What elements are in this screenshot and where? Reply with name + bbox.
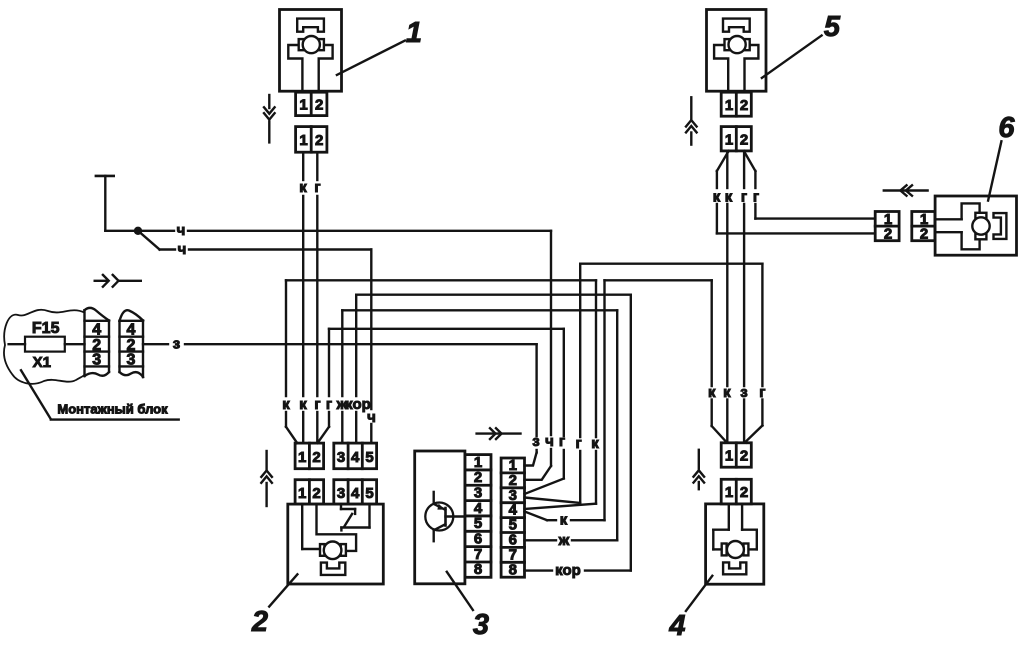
wire г (blue) relay 3 pin 3 to rear lamp 4 pin 2	[525, 264, 763, 503]
relay harness connector cells 1-8	[501, 457, 524, 578]
wire ж (yellow) switch 2 pin 3 to relay 3 pin 6	[342, 310, 617, 540]
svg-text:к: к	[725, 189, 733, 206]
svg-text:1: 1	[725, 97, 733, 114]
wire к inner from lamp 5 pin 1 down to rear lamp 4 pin 1	[726, 151, 728, 443]
svg-text:4: 4	[351, 485, 360, 502]
svg-text:2: 2	[740, 484, 748, 501]
lamp 6 leader line	[988, 141, 1001, 200]
hazard switch 2 internal wiring pin2 to bulb	[317, 504, 357, 551]
ground terminal symbol	[96, 176, 114, 231]
svg-text:2: 2	[315, 132, 323, 149]
wire к outer from lamp 5 pin 1 to side repeater 6 pin 2	[717, 151, 875, 234]
wire label к (at switch 2 outer)	[282, 396, 290, 413]
wire label г (lamp1)	[314, 179, 320, 196]
rear lamp 4 bulb symbol with holder	[713, 504, 757, 558]
wire г inner from lamp 5 pin 2 down to rear lamp 4 pin 2 area	[743, 151, 745, 443]
lamp 5 leader line	[762, 36, 822, 78]
svg-text:5: 5	[824, 11, 841, 43]
svg-text:2: 2	[920, 226, 928, 243]
lamp 5 bulb symbol with holder and contact bracket	[714, 19, 758, 92]
svg-text:ж: ж	[558, 532, 570, 549]
wire label к (at switch 2, same red wire)	[299, 396, 307, 413]
harness junction arrow (right) near mounting block	[95, 275, 141, 287]
wire label ж (at switch 2)	[336, 396, 348, 413]
wire label к (at rear lamp 4 outer)	[708, 384, 716, 401]
svg-text:1: 1	[299, 97, 307, 114]
hazard switch 2 connector row 1 pins 1 2	[295, 443, 324, 469]
svg-text:Монтажный блок: Монтажный блок	[57, 402, 168, 417]
svg-text:кор: кор	[345, 396, 371, 413]
lamp 6 connector block pins 1 2 (left)	[875, 211, 899, 243]
lamp 1 connector block pins 1 2 (lower)	[296, 127, 327, 153]
lamp 5 connector block pins 1 2 (lower)	[721, 127, 751, 151]
wire г from lamp 1 pin 2 down to switch 2 pin 2	[316, 152, 318, 443]
svg-text:г: г	[753, 189, 759, 206]
mounting block caption underline	[51, 418, 179, 420]
svg-text:г: г	[314, 396, 320, 413]
hazard switch 2 connector row 2 pins 3 4 5	[334, 480, 377, 504]
svg-text:2: 2	[740, 447, 748, 464]
svg-text:1: 1	[725, 484, 733, 501]
wire label г (first at relay connector)	[559, 433, 565, 450]
svg-text:к: к	[299, 179, 307, 196]
wire label г (second at relay connector)	[575, 435, 581, 452]
wire з (green) from fuse to relay 3 pin 1	[143, 344, 537, 465]
svg-text:к: к	[560, 512, 568, 529]
wire label ч (near ground, upper)	[177, 222, 186, 239]
svg-text:3: 3	[92, 352, 101, 369]
svg-text:8: 8	[509, 561, 517, 578]
mounting block caption	[57, 402, 168, 417]
mounting block leader line	[21, 370, 51, 419]
svg-text:2: 2	[312, 449, 320, 466]
svg-text:1: 1	[298, 485, 306, 502]
wire label к (lamp5 outer)	[713, 189, 721, 206]
svg-text:8: 8	[474, 561, 482, 578]
label 4 (component number)	[668, 610, 685, 642]
svg-text:1: 1	[298, 449, 306, 466]
svg-text:ч: ч	[545, 433, 554, 450]
svg-text:г: г	[575, 435, 581, 452]
mounting block connector strip cells 4 2 3 (left)	[85, 308, 110, 376]
svg-text:2: 2	[884, 226, 892, 243]
harness junction arrow (up) at lamp 5	[686, 97, 697, 144]
svg-text:2: 2	[315, 97, 323, 114]
svg-text:ж: ж	[336, 396, 348, 413]
svg-text:з: з	[740, 384, 747, 401]
svg-text:4: 4	[351, 449, 360, 466]
svg-text:1: 1	[725, 131, 733, 148]
svg-text:к: к	[713, 189, 721, 206]
wire label г (at rear lamp 4)	[759, 384, 765, 401]
wire кор (brown) switch 2 pin 4 to relay 3 pin 8	[356, 295, 631, 571]
wire label г (at switch 2, same blue wire)	[314, 396, 320, 413]
svg-text:4: 4	[92, 322, 101, 339]
wire к (red) relay 3 pin 4 to rear lamp 4 pin 1	[525, 280, 726, 520]
svg-text:2: 2	[312, 485, 320, 502]
svg-text:1: 1	[299, 132, 307, 149]
svg-text:2: 2	[740, 97, 748, 114]
wire label ч (at relay connector)	[545, 433, 554, 450]
svg-text:3: 3	[337, 449, 345, 466]
lamp 5 (front turn signal right) housing box	[707, 10, 767, 92]
harness junction arrow (right) at relay connector	[477, 428, 521, 439]
lamp 6 bulb symbol with holder and contact bracket (rotated)	[935, 203, 1006, 249]
wire label з (near mounting block)	[173, 336, 180, 353]
hazard switch 2 heater/contact bracket	[321, 563, 345, 575]
wire ч (black) branch from junction to switch 2 pin 5	[138, 231, 371, 443]
wire г (blue) switch 2 pin 2 to relay 3 pin 3	[318, 329, 564, 494]
svg-text:4: 4	[127, 322, 136, 339]
svg-text:4: 4	[668, 610, 685, 641]
label 3 (component number)	[473, 609, 489, 641]
wire label к (same red wire at rear lamp 4)	[723, 384, 731, 401]
svg-text:з: з	[532, 433, 539, 450]
svg-text:к: к	[299, 396, 307, 413]
wire label з (at relay connector)	[532, 433, 539, 450]
mounting block outline (Монтажный блок)	[4, 310, 85, 384]
wire label ч (near ground, lower)	[178, 241, 187, 258]
lamp 1 bulb symbol with holder and contact bracket	[288, 19, 332, 92]
fuse F15 symbol	[9, 337, 65, 352]
wire label г (lamp5 outer)	[753, 189, 759, 206]
wire label к (at relay connector)	[591, 435, 599, 452]
wire к from lamp 1 pin 1 down to switch 2 pin 1	[302, 152, 304, 443]
fuse output line to block connector	[65, 343, 85, 345]
wire label к (on relay pin4 horizontal)	[560, 512, 568, 529]
side repeater lamp 6 housing box	[935, 196, 1016, 255]
label 2 (component number)	[251, 606, 268, 638]
svg-text:2: 2	[740, 131, 748, 148]
svg-text:X1: X1	[33, 354, 51, 371]
hazard switch 2 connector row 2 pins 1 2	[295, 480, 324, 504]
svg-text:з: з	[173, 336, 180, 353]
wire label к (lamp5 inner)	[725, 189, 733, 206]
rear turn signal lamp 4 connector block pins 1 2 (upper)	[721, 443, 751, 467]
svg-text:3: 3	[337, 485, 345, 502]
fuse F15 label	[32, 320, 60, 337]
label 1 (component number)	[406, 17, 422, 49]
svg-text:2: 2	[251, 606, 268, 638]
svg-text:к: к	[723, 384, 731, 401]
rear lamp 4 body box	[706, 504, 764, 584]
svg-text:6: 6	[998, 112, 1015, 144]
svg-text:к: к	[591, 435, 599, 452]
hazard switch 2 internal wiring pin1 to bulb	[302, 504, 320, 549]
wire label к (lamp1)	[299, 179, 307, 196]
wire label ч (at switch 2)	[367, 409, 376, 426]
lamp 5 connector block pins 1 2 (upper)	[721, 92, 751, 116]
wire label ж (at relay connector)	[558, 532, 570, 549]
hazard switch 2 indicator bulb	[320, 542, 346, 560]
lamp 1 connector block pins 1 2 (upper)	[296, 92, 327, 115]
harness connector strip cells 4 2 3 (right)	[120, 310, 144, 377]
hazard switch 2 body box	[288, 504, 384, 584]
wire label кор (at relay connector)	[555, 562, 581, 579]
relay 3 terminal strip cells 1-8	[465, 454, 491, 578]
svg-text:1: 1	[725, 447, 733, 464]
hazard switch 2 switch contact symbol	[341, 504, 370, 530]
svg-text:к: к	[282, 396, 290, 413]
wire label г (lamp5 inner)	[741, 189, 747, 206]
svg-text:1: 1	[406, 17, 422, 49]
wire label кор (at switch 2)	[345, 396, 371, 413]
lamp 1 (front turn signal) housing box	[280, 10, 342, 92]
wire label г (at switch 2 outer)	[326, 396, 332, 413]
svg-text:г: г	[759, 384, 765, 401]
svg-text:5: 5	[365, 449, 373, 466]
svg-text:ч: ч	[178, 241, 187, 258]
wire ч (black) from ground to relay 3 pin 2	[105, 231, 551, 480]
svg-text:кор: кор	[555, 562, 581, 579]
rear lamp 4 contact bracket	[723, 562, 746, 574]
junction dot on ground wire	[134, 227, 142, 235]
lamp 6 connector block pins 1 2 (right)	[912, 211, 935, 243]
svg-text:F15: F15	[32, 320, 60, 337]
relay 3 transistor symbol	[425, 492, 465, 541]
wire к (red) switch 2 pin 1 to relay 3 pin 4	[286, 280, 596, 509]
rear lamp 4 leader line	[686, 576, 712, 611]
label 5 (component number)	[824, 11, 841, 43]
connector X1 label	[33, 354, 51, 371]
hazard switch 2 connector row 1 pins 3 4 5	[334, 443, 377, 469]
svg-text:3: 3	[473, 609, 489, 641]
svg-text:3: 3	[127, 352, 136, 369]
svg-text:к: к	[708, 384, 716, 401]
label 6 (component number)	[998, 112, 1015, 144]
lamp 1 leader line	[337, 41, 405, 75]
svg-text:5: 5	[365, 485, 373, 502]
svg-text:г: г	[741, 189, 747, 206]
harness junction arrow (up) at switch 2	[261, 451, 272, 506]
svg-text:г: г	[314, 179, 320, 196]
harness junction arrow (down) at lamp 1	[264, 95, 275, 142]
svg-text:г: г	[559, 433, 565, 450]
svg-text:г: г	[326, 396, 332, 413]
harness junction arrow (up) at rear lamp 4	[694, 450, 705, 489]
turn signal relay 3 body box	[415, 451, 465, 584]
wire label з (green wire at rear lamp 4)	[740, 384, 747, 401]
hazard switch 2 leader line	[269, 574, 297, 606]
relay 3 leader line	[447, 572, 473, 610]
svg-text:ч: ч	[177, 222, 186, 239]
wire г outer from lamp 5 pin 2 to side repeater 6 pin 1	[744, 151, 875, 219]
harness junction arrow (left) at lamp 6	[884, 185, 928, 195]
rear turn signal lamp 4 connector block pins 1 2 (lower)	[721, 479, 751, 504]
